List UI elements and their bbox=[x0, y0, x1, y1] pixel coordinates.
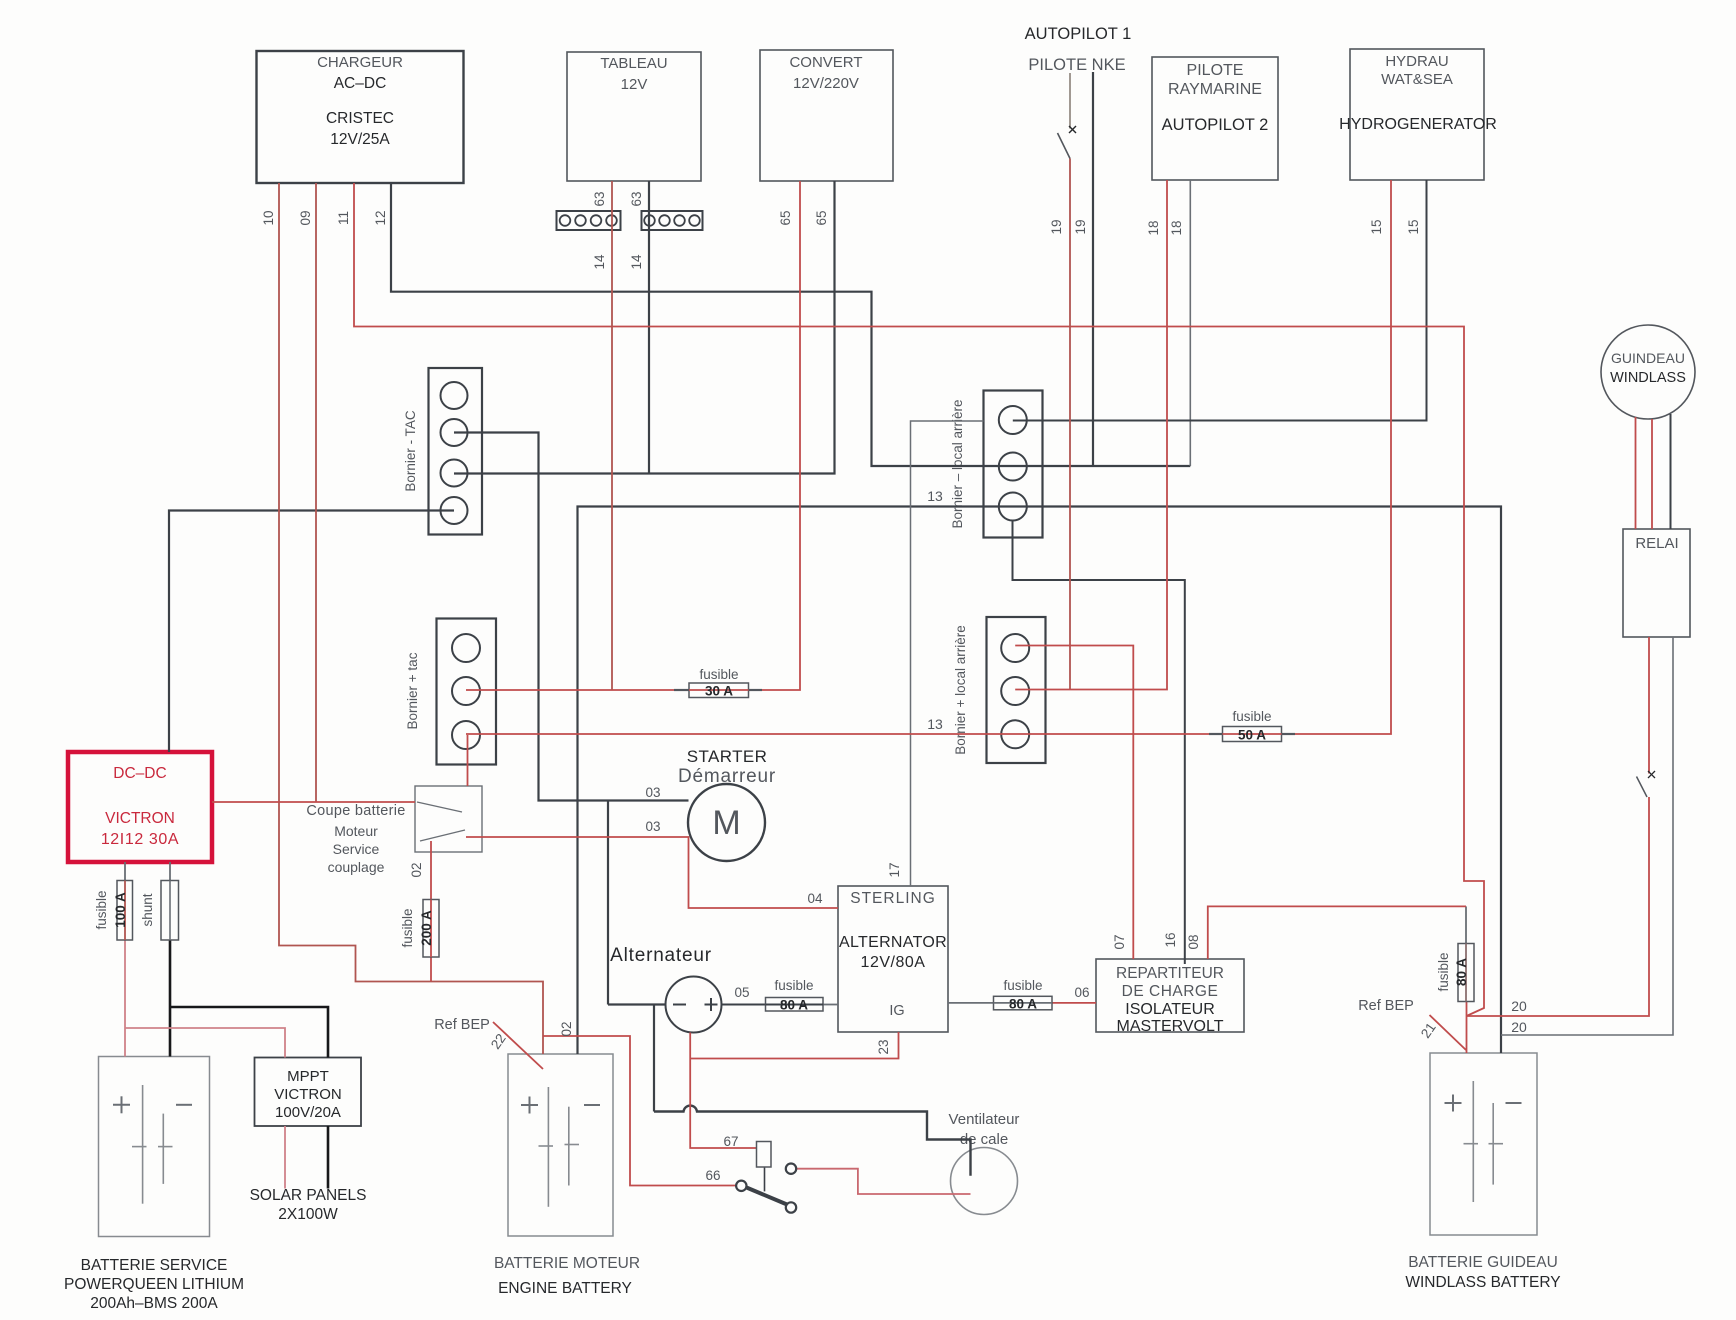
fuse 200A fusible vertical bbox=[400, 900, 439, 958]
wire 02 coupe batterie through fuse 200A bbox=[430, 841, 432, 982]
svg-text:14: 14 bbox=[629, 254, 644, 270]
solar regulator box MPPT VICTRON 100V/20A bbox=[255, 1058, 362, 1127]
sterling alternator regulator box STERLING ALTERNATOR 12V/80A bbox=[838, 886, 948, 1032]
svg-text:fusible: fusible bbox=[1003, 978, 1042, 993]
svg-text:AUTOPILOT 1: AUTOPILOT 1 bbox=[1025, 25, 1132, 43]
wire negative engine net alternator and fan bbox=[608, 801, 971, 1176]
svg-text:18: 18 bbox=[1146, 220, 1161, 235]
svg-text:02: 02 bbox=[409, 862, 424, 877]
wire dark guindeau to relay bbox=[1670, 414, 1672, 529]
terminal block Bornier + tac bbox=[405, 619, 496, 765]
wire 06 red fuse to repartiteur bbox=[1052, 1002, 1096, 1004]
svg-text:TABLEAU: TABLEAU bbox=[600, 55, 667, 72]
svg-text:fusible: fusible bbox=[774, 978, 813, 993]
svg-text:ALTERNATOR: ALTERNATOR bbox=[839, 934, 947, 951]
wire 12 charger negative to pilots bus bbox=[391, 183, 1190, 466]
svg-text:PILOTE NKE: PILOTE NKE bbox=[1028, 56, 1125, 74]
shunt vertical bbox=[140, 881, 179, 941]
wire fan switch to fan bbox=[796, 1169, 970, 1194]
svg-text:ENGINE BATTERY: ENGINE BATTERY bbox=[498, 1280, 632, 1297]
fuse 80A alternator fusible 05 bbox=[766, 978, 824, 1013]
svg-text:Moteur: Moteur bbox=[334, 823, 378, 839]
leader 21 Ref BEP right bbox=[1430, 1015, 1467, 1050]
svg-text:09: 09 bbox=[298, 210, 313, 225]
converter box CONVERT 12V/220V bbox=[760, 50, 893, 181]
svg-text:80 A: 80 A bbox=[1454, 958, 1469, 986]
svg-text:AUTOPILOT 2: AUTOPILOT 2 bbox=[1162, 116, 1269, 134]
svg-text:CRISTEC: CRISTEC bbox=[326, 110, 394, 127]
svg-text:Alternateur: Alternateur bbox=[610, 945, 712, 966]
wire 63 red tableau drop bbox=[611, 181, 613, 690]
svg-text:12V/220V: 12V/220V bbox=[793, 75, 859, 92]
svg-text:MPPT: MPPT bbox=[287, 1068, 329, 1085]
wire 66 branch battery plus to switch bbox=[543, 1036, 736, 1186]
svg-text:PILOTE: PILOTE bbox=[1187, 62, 1244, 79]
svg-text:06: 06 bbox=[1074, 985, 1089, 1000]
wire red guindeau pair to relay bbox=[1636, 417, 1653, 529]
wire 65 dark convert to bornier TAC bbox=[454, 181, 835, 474]
svg-text:100 A: 100 A bbox=[113, 892, 128, 928]
svg-text:WINDLASS BATTERY: WINDLASS BATTERY bbox=[1405, 1274, 1560, 1291]
svg-text:Ref BEP: Ref BEP bbox=[434, 1017, 490, 1033]
wire 06 sterling to fuse bbox=[948, 1002, 994, 1004]
svg-text:19: 19 bbox=[1073, 219, 1088, 234]
svg-text:20: 20 bbox=[1511, 1019, 1527, 1035]
svg-text:WINDLASS: WINDLASS bbox=[1610, 370, 1686, 386]
wire solar panel negative bbox=[327, 1126, 330, 1189]
svg-text:50 A: 50 A bbox=[1238, 728, 1266, 743]
wire shunt to battery service negative with solar branch bbox=[170, 940, 328, 1058]
svg-text:11: 11 bbox=[336, 211, 351, 225]
svg-text:10: 10 bbox=[261, 210, 276, 225]
svg-text:12: 12 bbox=[373, 210, 388, 225]
svg-text:2X100W: 2X100W bbox=[278, 1206, 338, 1223]
svg-text:AC–DC: AC–DC bbox=[334, 75, 387, 92]
wire 11 charger to windlass fuse bbox=[354, 183, 1484, 1016]
label SOLAR PANELS 2X100W bbox=[250, 1187, 367, 1223]
charger box U1 CHARGEUR AC-DC CRISTEC bbox=[257, 51, 464, 183]
wire 15 dark hydrogenerator to bornier local bbox=[1013, 180, 1427, 421]
windlass circle GUINDEAU WINDLASS bbox=[1601, 325, 1695, 419]
svg-text:CHARGEUR: CHARGEUR bbox=[317, 54, 403, 71]
svg-text:Ref BEP: Ref BEP bbox=[1358, 998, 1414, 1014]
svg-text:VICTRON: VICTRON bbox=[274, 1086, 342, 1103]
fuse 80A windlass fusible vertical bbox=[1436, 944, 1474, 1002]
connector block 63 right bbox=[642, 211, 703, 230]
svg-text:SOLAR PANELS: SOLAR PANELS bbox=[250, 1187, 367, 1204]
svg-text:GUINDEAU: GUINDEAU bbox=[1611, 350, 1685, 366]
svg-text:65: 65 bbox=[778, 210, 793, 225]
svg-text:13: 13 bbox=[927, 488, 943, 504]
wire 20 dark relay negative bbox=[1501, 637, 1673, 1035]
svg-text:BATTERIE GUIDEAU: BATTERIE GUIDEAU bbox=[1408, 1254, 1558, 1271]
wire fan relay lead bbox=[764, 1167, 766, 1192]
wire fuse 30A bus bornier tac to convert bbox=[466, 181, 800, 690]
svg-text:02: 02 bbox=[559, 1021, 574, 1036]
svg-text:04: 04 bbox=[807, 891, 823, 906]
svg-text:07: 07 bbox=[1112, 934, 1127, 949]
svg-text:15: 15 bbox=[1369, 219, 1384, 234]
svg-text:fusible: fusible bbox=[699, 667, 738, 682]
wire 19 red pilote NKE with switch bbox=[1058, 73, 1077, 690]
engine battery BATTERIE MOTEUR ENGINE BATTERY bbox=[494, 1054, 640, 1297]
svg-text:DE CHARGE: DE CHARGE bbox=[1122, 983, 1219, 1000]
svg-text:couplage: couplage bbox=[328, 859, 385, 875]
starter motor M Demarreur bbox=[678, 747, 776, 861]
svg-text:12V/25A: 12V/25A bbox=[330, 131, 390, 148]
wire 07 bornier local to repartiteur bbox=[1015, 646, 1133, 960]
svg-text:Coupe batterie: Coupe batterie bbox=[306, 803, 405, 819]
wire 17 gray sterling to bornier local bbox=[911, 421, 984, 886]
svg-text:Bornier + local arrière: Bornier + local arrière bbox=[953, 625, 968, 754]
wire 19 dark pilote NKE negative drop bbox=[1092, 72, 1094, 466]
service battery BATTERIE SERVICE POWERQUEEN LITHIUM bbox=[64, 1057, 244, 1313]
svg-text:23: 23 bbox=[876, 1039, 891, 1054]
wire 03 dark bornier TAC to starter bbox=[454, 433, 689, 801]
svg-text:Bornier + tac: Bornier + tac bbox=[405, 652, 420, 729]
terminal block Bornier + local arriere bbox=[953, 617, 1046, 763]
wire 18 red raymarine to bornier local bbox=[1015, 180, 1167, 690]
wire 09 charger sense bbox=[315, 183, 317, 802]
fuse 30A fusible bbox=[674, 667, 762, 699]
svg-text:200Ah–BMS 200A: 200Ah–BMS 200A bbox=[90, 1295, 218, 1312]
svg-text:BATTERIE MOTEUR: BATTERIE MOTEUR bbox=[494, 1255, 640, 1272]
wire fuse bottom junction link bbox=[1466, 1002, 1468, 1017]
svg-text:fusible: fusible bbox=[1232, 709, 1271, 724]
wire 08 repartiteur to windlass fuse bbox=[1208, 906, 1466, 959]
battery switch box Coupe batterie bbox=[306, 786, 482, 875]
svg-text:15: 15 bbox=[1406, 219, 1421, 234]
wire 16 dark bornier local to repartiteur bbox=[1013, 521, 1185, 965]
svg-text:ISOLATEUR: ISOLATEUR bbox=[1125, 1001, 1215, 1018]
svg-text:REPARTITEUR: REPARTITEUR bbox=[1116, 965, 1224, 982]
svg-text:fusible: fusible bbox=[94, 890, 109, 929]
fan relay fuse box 67 bbox=[757, 1142, 772, 1168]
windlass battery BATTERIE GUIDEAU WINDLASS BATTERY bbox=[1405, 1053, 1560, 1291]
svg-text:12V/80A: 12V/80A bbox=[861, 954, 926, 971]
svg-text:WAT&SEA: WAT&SEA bbox=[1381, 71, 1453, 88]
svg-text:30 A: 30 A bbox=[705, 684, 733, 699]
svg-text:67: 67 bbox=[723, 1134, 738, 1149]
relay box RELAI bbox=[1623, 529, 1690, 637]
terminal block Bornier - local arriere bbox=[950, 391, 1043, 538]
wire dc-dc to fuse 100A and shunt gray links bbox=[125, 862, 170, 881]
svg-text:fusible: fusible bbox=[400, 908, 415, 947]
svg-text:03: 03 bbox=[645, 819, 660, 834]
wire dc-dc plus to coupe batterie bbox=[212, 801, 415, 803]
svg-text:63: 63 bbox=[592, 191, 607, 206]
svg-text:VICTRON: VICTRON bbox=[105, 810, 175, 827]
svg-text:65: 65 bbox=[814, 210, 829, 225]
svg-text:M: M bbox=[712, 804, 740, 842]
charge splitter box REPARTITEUR DE CHARGE ISOLATEUR MASTERVOLT bbox=[1096, 959, 1244, 1035]
wire 13 negative bus battery moteur to battery guideau bbox=[578, 507, 1502, 1055]
wire 05 alternator plus to sterling bbox=[722, 1004, 839, 1006]
svg-text:13: 13 bbox=[927, 716, 943, 732]
svg-text:63: 63 bbox=[629, 191, 644, 206]
svg-text:12V: 12V bbox=[621, 76, 648, 93]
wire bornier TAC to dc-dc negative bbox=[169, 511, 454, 753]
svg-text:05: 05 bbox=[734, 985, 749, 1000]
fuse 100A fusible vertical bbox=[94, 881, 133, 941]
svg-text:66: 66 bbox=[705, 1168, 720, 1183]
fan switch 66 bbox=[736, 1164, 796, 1213]
svg-text:20: 20 bbox=[1511, 998, 1527, 1014]
svg-text:BATTERIE SERVICE: BATTERIE SERVICE bbox=[81, 1257, 228, 1274]
wire 04 coupe batterie to starter and sterling bbox=[466, 837, 838, 908]
svg-text:19: 19 bbox=[1049, 219, 1064, 234]
wire 10 charger to engine battery plus bbox=[279, 183, 543, 1054]
svg-text:STARTER: STARTER bbox=[687, 747, 768, 766]
alternator circle Alternateur bbox=[610, 945, 721, 1033]
svg-text:IG: IG bbox=[889, 1003, 904, 1019]
svg-text:Bornier - TAC: Bornier - TAC bbox=[403, 410, 418, 492]
leader 22 Ref BEP left bbox=[493, 1022, 543, 1069]
svg-text:Bornier – local arrière: Bornier – local arrière bbox=[950, 399, 965, 528]
wire solar panel positive bbox=[284, 1126, 286, 1189]
wire 23 sterling IG bbox=[690, 1032, 898, 1059]
svg-text:80 A: 80 A bbox=[780, 998, 808, 1013]
svg-text:03: 03 bbox=[645, 785, 660, 800]
hydrogenerator box HYDRAU WAT&SEA bbox=[1339, 49, 1497, 180]
svg-text:STERLING: STERLING bbox=[850, 890, 936, 907]
wire 20 red windlass fuse to relay with switch bbox=[1467, 637, 1656, 1053]
svg-text:14: 14 bbox=[592, 254, 607, 270]
bilge fan circle Ventilateur de cale bbox=[949, 1111, 1020, 1215]
wire fuse 100A to battery service plus with mppt branch bbox=[125, 940, 285, 1058]
svg-text:17: 17 bbox=[887, 862, 902, 877]
svg-text:80 A: 80 A bbox=[1009, 997, 1037, 1012]
svg-text:18: 18 bbox=[1169, 220, 1184, 235]
svg-text:RAYMARINE: RAYMARINE bbox=[1168, 81, 1262, 98]
svg-text:16: 16 bbox=[1163, 932, 1178, 947]
svg-text:RELAI: RELAI bbox=[1635, 535, 1678, 552]
svg-text:08: 08 bbox=[1186, 934, 1201, 949]
svg-text:Service: Service bbox=[333, 841, 380, 857]
wire 67 alternator plus to fan relay bbox=[690, 1033, 756, 1149]
dc-dc converter box DC-DC VICTRON 12I12 30A bbox=[68, 752, 212, 862]
svg-text:MASTERVOLT: MASTERVOLT bbox=[1117, 1018, 1224, 1035]
svg-text:CONVERT: CONVERT bbox=[789, 54, 862, 71]
svg-text:DC–DC: DC–DC bbox=[113, 765, 166, 782]
svg-text:POWERQUEEN LITHIUM: POWERQUEEN LITHIUM bbox=[64, 1276, 244, 1293]
wire 63 dark tableau drop bbox=[648, 181, 650, 474]
wire 13 red bus bornier tac to hydrogenerator fuse 50A bbox=[466, 180, 1391, 734]
terminal block Bornier - TAC bbox=[403, 368, 482, 535]
wire 08 link fuse top bbox=[1465, 906, 1467, 943]
svg-text:Ventilateur: Ventilateur bbox=[949, 1111, 1020, 1128]
fuse 50A fusible bbox=[1209, 709, 1295, 743]
svg-text:shunt: shunt bbox=[140, 893, 155, 926]
svg-text:200 A: 200 A bbox=[419, 910, 434, 946]
connector block 63 left bbox=[557, 211, 621, 230]
wire 18 dark raymarine negative drop bbox=[1189, 180, 1191, 466]
panel box TABLEAU 12V bbox=[567, 52, 701, 181]
fuse 80A repartiteur fusible 06 bbox=[994, 978, 1053, 1012]
svg-text:HYDRAU: HYDRAU bbox=[1385, 53, 1448, 70]
autopilot box PILOTE RAYMARINE AUTOPILOT 2 bbox=[1152, 57, 1278, 180]
wire bornier tac circle3 to coupe batterie bbox=[467, 735, 469, 786]
svg-text:100V/20A: 100V/20A bbox=[275, 1104, 341, 1121]
svg-text:12I12 30A: 12I12 30A bbox=[101, 831, 179, 848]
svg-text:HYDROGENERATOR: HYDROGENERATOR bbox=[1339, 116, 1497, 133]
svg-text:fusible: fusible bbox=[1436, 952, 1451, 991]
